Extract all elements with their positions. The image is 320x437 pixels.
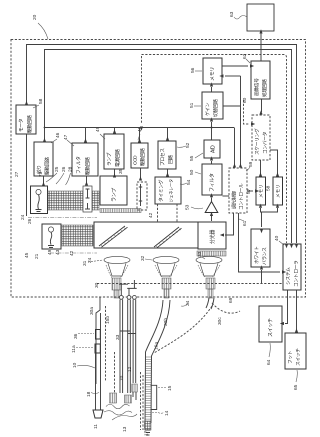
optical axis 1 (dash-dot) [28,217,97,219]
dashed light cone lens3 [198,265,220,277]
frame memory left [256,177,266,205]
svg-text:35: 35 [118,168,124,174]
svg-text:45: 45 [24,252,30,258]
svg-text:26: 26 [61,166,67,172]
svg-text:20: 20 [32,14,38,20]
svg-text:処理回路: 処理回路 [261,79,268,97]
svg-text:69: 69 [228,297,234,303]
svg-text:40: 40 [274,235,280,241]
dashed inner channel [114,352,116,393]
frame memory right [273,177,283,205]
arrow3 into system controller top [285,244,288,248]
flexible-section bracket 15 [151,385,157,409]
wire scaling converter right edge to frame memory R [270,150,278,174]
svg-text:16a: 16a [154,342,160,350]
leader for 20 [38,23,48,39]
svg-text:52: 52 [185,142,191,148]
svg-text:25: 25 [54,166,60,172]
svg-text:ゲイン: ゲイン [204,102,211,116]
arrow into motor drive box [25,101,28,105]
svg-text:スケーリング: スケーリング [254,128,261,155]
svg-text:63: 63 [229,11,235,17]
svg-text:53: 53 [185,204,191,210]
dashed box 60: scaling converter [252,115,270,160]
svg-text:プロセス: プロセス [160,148,166,166]
wire bus end down into dimmer [234,128,236,166]
svg-text:17: 17 [144,430,150,436]
wire dimmer down to system controller [239,213,281,272]
svg-text:駆動回路: 駆動回路 [139,148,146,166]
tip exit curves [106,404,130,409]
svg-text:73: 73 [38,171,44,177]
wire up into white balance bottom [261,270,263,283]
dashed cord going right [212,303,240,313]
wire gain output right and down into dimmer [223,76,241,165]
svg-text:コントロール: コントロール [239,183,245,210]
svg-text:54: 54 [186,179,192,185]
svg-text:フィルタ: フィルタ [75,156,82,174]
svg-text:33: 33 [115,334,121,340]
movable filter (dashed) right of lamp [137,182,147,210]
svg-text:43: 43 [55,249,61,255]
svg-text:47: 47 [63,134,69,140]
svg-text:15b: 15b [105,316,111,324]
svg-text:21: 21 [34,253,40,259]
svg-text:A/D: A/D [211,145,217,153]
box 58: motor drive circuit [16,105,36,134]
svg-text:メモリ: メモリ [276,184,281,198]
svg-text:30: 30 [94,282,100,288]
box 56: memory [203,58,222,84]
outer dashed enclosure 20 [11,40,306,298]
box 62: video signal processing circuit [251,61,270,99]
wire process to timing generator [167,169,169,174]
attachment box 11a [95,344,100,353]
forceps channel tube [96,313,101,410]
distal tip [145,421,152,430]
svg-text:55: 55 [189,155,195,161]
box 60: system controller [283,244,301,290]
svg-text:50: 50 [189,169,195,175]
wire down from memories join to white balance [261,212,263,227]
svg-text:CCD: CCD [133,155,139,165]
svg-text:62: 62 [242,53,248,59]
signal line pair 1 [120,300,123,394]
svg-text:システム: システム [286,267,292,285]
svg-text:画像信号: 画像信号 [253,78,260,96]
arrow into system controller top [295,244,298,248]
box: spectroscope 分光器 [198,222,226,249]
filter wheel 2 (crosshatched) [62,225,93,246]
box 54: timing generator [155,177,181,204]
control bus horizontal [44,127,234,129]
dashed control wire from inner border down to bus [141,56,143,123]
wire dimmer to frame memory [247,190,253,192]
svg-text:30a: 30a [89,307,95,315]
svg-text:分光器: 分光器 [209,230,216,244]
dashed link timing generator to housing [158,204,178,222]
wire below motor drive down to wheel area [26,134,28,216]
wire filter drive to aperture unit [86,176,88,183]
svg-text:70: 70 [119,375,125,381]
inner dashed enclosure bottom [97,283,283,285]
junction dot on bus [211,127,213,129]
wire A/D up through bus to gain [211,122,213,140]
universal cord curves from socket 3 [206,298,214,309]
bus arrow into filter drive [85,128,87,141]
slit bar under spectroscope [197,251,226,256]
svg-text:ジェネレータ: ジェネレータ [168,179,175,202]
box 51: gain switching circuit [202,92,223,119]
svg-text:電源回路: 電源回路 [114,149,121,167]
wires below frame memories [261,208,278,212]
wire memory to video processor [222,65,248,67]
light guide socket 1 [112,278,121,290]
svg-text:58: 58 [38,98,44,104]
svg-text:コントローラ: コントローラ [294,260,300,287]
svg-text:メモリ: メモリ [210,67,216,81]
dashed box: dimmer circuit 調光回路 [229,168,247,213]
socket brackets [119,280,137,295]
svg-text:スイッチ: スイッチ [268,318,274,337]
svg-text:26: 26 [27,218,33,224]
svg-text:11a: 11a [71,345,77,353]
tip ferrule middle [125,395,132,403]
svg-text:バランス: バランス [262,247,268,265]
box 64: switch [259,306,282,342]
bus arrow into CCD drive [139,128,141,141]
box: white balance circuit [251,229,270,267]
svg-text:15: 15 [167,385,173,391]
condenser lens 2 [153,256,179,263]
wire drive to movable filter [140,168,142,178]
tip ferrule left [110,393,117,403]
aperture unit box (overlaid on wheel) [83,186,92,212]
svg-text:56: 56 [190,67,196,73]
wire dimmer to spectroscope [225,213,234,235]
scope connector body outline [96,297,100,384]
svg-text:フット: フット [288,350,294,364]
wire lamp power to lamp [114,169,116,175]
socket circle a [119,296,123,300]
dashed light cone lens1 [106,265,128,278]
light guide socket 2 [162,278,171,289]
hatched bar under lamp [100,209,141,213]
svg-text:60: 60 [242,97,248,103]
svg-text:メモリ: メモリ [259,184,264,198]
svg-text:51: 51 [189,102,195,108]
wire system-controller to motor drive (top bus 1) [27,45,297,244]
dashed light cone lens2 [155,265,177,277]
svg-text:モータ: モータ [18,118,25,132]
wire gain to memory [211,87,213,92]
wire system controller to foot switch [296,290,298,330]
condenser lens 1 [104,256,130,263]
amplifier 53 triangle [205,202,218,213]
arrow into aperture drive box [43,138,46,142]
svg-text:33: 33 [197,251,203,257]
svg-text:49: 49 [47,249,53,255]
leaders for labels 25 26 28 [46,173,71,185]
condenser lens 3 [196,256,222,263]
box 49: lamp power circuit [104,134,124,169]
wire system-controller to aperture drive (top bus 2) [45,50,292,244]
svg-text:61: 61 [242,220,248,226]
svg-text:ホワイト: ホワイト [254,246,260,264]
svg-text:ランプ: ランプ [107,152,113,166]
box 55: A/D [204,140,220,158]
svg-text:12: 12 [127,366,133,372]
box 46: aperture drive circuit [34,142,53,176]
insertion tube curved left edge [145,300,163,428]
svg-text:31: 31 [82,260,88,266]
socket circle b [127,296,131,300]
svg-text:59: 59 [248,161,254,167]
svg-text:調光制御: 調光制御 [231,191,238,209]
svg-text:57: 57 [246,188,252,194]
svg-text:ランプ: ランプ [112,188,118,202]
svg-text:10: 10 [72,362,78,368]
junction dot bus left [44,127,46,129]
svg-text:18: 18 [86,391,92,397]
signal line pair 3 [133,300,136,384]
svg-text:36: 36 [73,333,79,339]
svg-text:42: 42 [69,250,75,256]
dashed scope boundary [105,306,107,382]
motor 2 symbol [48,227,53,232]
svg-text:フィルタ: フィルタ [209,173,216,192]
wire amp to filter [211,198,213,202]
svg-text:27: 27 [14,171,20,177]
attachment box 36 [96,330,101,340]
motor 1 symbol [36,189,41,194]
optical housing box [94,222,198,248]
svg-text:24: 24 [20,214,26,220]
svg-text:回路: 回路 [167,155,174,164]
box 65: foot switch [285,333,306,369]
dashed wire into scaling converter left [244,100,250,124]
wire scaling converter to frame memory L [260,160,262,174]
tie lines [120,331,136,334]
box 48: CCD drive circuit [131,143,148,168]
tube rib texture [145,357,151,419]
svg-text:65: 65 [293,384,299,390]
svg-text:駆動回路: 駆動回路 [84,157,91,175]
channel end [93,410,103,418]
inner dashed enclosure (processor section) [142,55,287,244]
svg-text:駆動回路: 駆動回路 [44,157,51,175]
svg-text:30b: 30b [163,318,169,326]
svg-text:58: 58 [266,185,272,191]
lamp box [100,176,127,205]
svg-text:28: 28 [68,166,74,172]
bus arrow into lamp power [114,128,116,132]
motor 2 box [42,224,61,249]
svg-text:14: 14 [164,410,170,416]
wire aperture drive to motor 1 [43,176,45,184]
svg-text:64: 64 [266,359,272,365]
wire spectroscope to amp [211,216,213,222]
signal line pair 2 [128,300,131,394]
monitor 63 (solid box) [247,4,274,31]
wire filter to A/D [211,161,213,164]
wire dimmer left stub [223,195,230,197]
svg-text:42: 42 [148,212,154,218]
box 50: filter [202,164,222,195]
svg-text:13: 13 [122,426,128,432]
wire video processor back to memory [225,75,241,77]
svg-text:駆動回路: 駆動回路 [26,115,33,133]
wire system controller to switch [285,290,288,324]
bus arrow into process circuit [167,128,169,139]
mirror 1 (diagonal hatched) [99,226,128,247]
svg-text:タイミング: タイミング [158,179,165,202]
optical axis 2 (dash-dot) [50,252,97,254]
arrow of dashed wire onto bus [140,127,143,131]
tip ferrule right (higher) [132,384,138,392]
light guide socket 3 [206,278,215,289]
box 52: process circuit [158,141,176,169]
svg-text:切替回路: 切替回路 [212,99,219,117]
svg-text:スイッチ: スイッチ [296,348,302,366]
svg-text:30c: 30c [217,317,223,325]
svg-text:11: 11 [93,424,99,429]
insertion tube curved right edge [151,300,170,423]
wire video processor to monitor [260,33,262,61]
svg-text:コンバータ: コンバータ [262,131,269,154]
box 47: filter drive circuit [72,143,98,176]
mirror 2 (diagonal hatched) [154,227,182,248]
dashed pair left of tube [141,372,144,430]
arrow2 into system controller top [290,244,293,248]
motor 1 box [31,186,48,214]
filter wheel 1 (crosshatched) [48,191,99,210]
svg-text:46: 46 [55,132,61,138]
socket circle c [133,296,137,300]
svg-text:32: 32 [140,255,146,261]
wire video processor down to scaling converter [261,99,263,112]
